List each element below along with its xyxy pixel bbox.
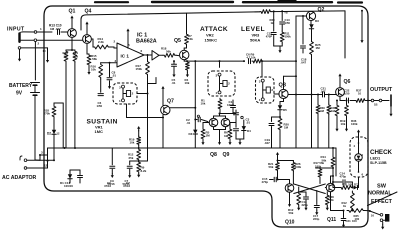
- resistor R17 column: [147, 55, 149, 60]
- capacitor C6 series: [248, 59, 250, 64]
- svg-text:Q6: Q6: [344, 79, 351, 85]
- svg-text:6: 6: [362, 173, 364, 177]
- svg-text:Q10: Q10: [285, 220, 295, 226]
- svg-text:1M: 1M: [284, 126, 289, 130]
- svg-text:56k: 56k: [166, 50, 171, 54]
- ground stub inside outline: [47, 48, 49, 58]
- svg-text:Q4: Q4: [85, 9, 92, 15]
- svg-text:47/16: 47/16: [104, 184, 111, 188]
- diode D3b on tap column: [194, 119, 196, 121]
- scan artifact top edge marks: [95, 1, 128, 3]
- svg-text:BA662A: BA662A: [136, 39, 157, 45]
- svg-text:1/50: 1/50: [344, 92, 350, 96]
- svg-text:3: 3: [216, 73, 218, 77]
- svg-text:47/16: 47/16: [123, 184, 130, 188]
- svg-text:470P: 470P: [266, 35, 272, 39]
- resistor R9 series: [252, 59, 263, 63]
- capacitor C18b: [304, 196, 309, 198]
- svg-text:6: 6: [141, 49, 143, 53]
- svg-text:Q11: Q11: [327, 217, 336, 223]
- input jack: [18, 33, 20, 41]
- svg-text:1: 1: [216, 91, 218, 95]
- svg-text:1k: 1k: [343, 204, 347, 208]
- svg-text:Q3: Q3: [279, 82, 286, 88]
- Q4 emitter resistor R16: [86, 43, 88, 54]
- Q11 collector to R14: [330, 176, 332, 183]
- battery wire: [34, 42, 36, 81]
- svg-text:ATTACK: ATTACK: [200, 26, 228, 33]
- svg-text:150k: 150k: [136, 67, 143, 71]
- svg-text:Q5: Q5: [174, 38, 181, 44]
- resistor R25: [310, 40, 314, 56]
- resistor R19 column with supply arrow: [138, 128, 140, 132]
- resistors R29 R30: [316, 104, 320, 115]
- svg-text:10: 10: [43, 49, 47, 53]
- resistor R35: [347, 209, 365, 213]
- resistor R5: [203, 122, 209, 124]
- svg-text:220p: 220p: [313, 217, 320, 221]
- svg-text:270k: 270k: [44, 112, 51, 116]
- resistor R18b column: [52, 105, 56, 118]
- capacitor C1 under VR2: [232, 100, 234, 104]
- svg-text:Q9: Q9: [223, 152, 230, 158]
- svg-text:10: 10: [358, 92, 362, 96]
- capacitor C20 series: [322, 92, 324, 97]
- svg-text:1: 1: [119, 99, 121, 103]
- svg-text:D2: D2: [47, 132, 51, 136]
- node under R12: [138, 160, 140, 162]
- svg-text:1/50: 1/50: [97, 104, 103, 108]
- resistor R4: [186, 61, 190, 71]
- svg-text:220p: 220p: [302, 203, 309, 207]
- CHECK LED dashed box: [350, 137, 368, 177]
- svg-text:16: 16: [371, 213, 375, 217]
- svg-text:10k: 10k: [130, 141, 135, 145]
- capacitor C9 polarized: [111, 148, 113, 165]
- svg-text:470p: 470p: [262, 180, 269, 184]
- output jack: [368, 100, 371, 102]
- resistor R6: [230, 122, 236, 124]
- wire input to Q1: [48, 31, 52, 33]
- capacitor C3: [233, 113, 236, 115]
- svg-text:50KA: 50KA: [250, 38, 260, 43]
- wire Q3 emitter to Q6 base: [295, 94, 297, 96]
- svg-text:10k: 10k: [185, 81, 190, 85]
- svg-text:10/25: 10/25: [227, 103, 235, 107]
- Q11 emitter to bottom wire: [330, 192, 332, 211]
- svg-text:1M: 1M: [224, 134, 229, 138]
- svg-text:AC ADAPTOR: AC ADAPTOR: [2, 175, 37, 181]
- svg-text:Q7: Q7: [167, 99, 174, 105]
- VR2 top wire: [219, 61, 221, 67]
- IC1 power pin wire: [127, 34, 129, 48]
- resistor R28: [325, 194, 329, 206]
- svg-text:1M: 1M: [316, 46, 321, 50]
- svg-text:OUTPUT: OUTPUT: [370, 87, 393, 93]
- svg-text:D3: D3: [189, 132, 193, 136]
- svg-text:56k: 56k: [321, 158, 326, 162]
- svg-text:3: 3: [119, 85, 121, 89]
- svg-text:1M: 1M: [64, 54, 69, 58]
- capacitor C22: [346, 98, 348, 103]
- battery to power entry wire: [34, 95, 36, 160]
- capacitor C18: [302, 16, 304, 44]
- Q7 collector wire: [170, 107, 196, 109]
- svg-text:2: 2: [271, 88, 273, 92]
- AC adaptor jack: [20, 156, 22, 160]
- Q5 collector resistor R7: [183, 48, 185, 50]
- svg-text:2: 2: [38, 41, 40, 45]
- capacitor C2: [197, 115, 199, 117]
- resistor R10: [66, 49, 72, 51]
- resistor R26: [292, 162, 296, 172]
- diode D5: [283, 99, 285, 102]
- signal line from Q5 emitter: [183, 60, 185, 61]
- svg-text:1/50: 1/50: [285, 21, 291, 25]
- buffer triangle: [144, 54, 152, 56]
- capacitor C5: [173, 61, 175, 64]
- capacitor C21: [341, 218, 346, 220]
- svg-text:LED1: LED1: [370, 156, 381, 161]
- svg-text:100: 100: [355, 217, 360, 221]
- resistor R30 capacitor C13 columns: [273, 10, 275, 12]
- stub near R17: [148, 83, 157, 85]
- svg-text:1M: 1M: [206, 134, 211, 138]
- svg-text:SLP-115B: SLP-115B: [370, 161, 387, 165]
- svg-text:10k: 10k: [188, 37, 193, 41]
- svg-text:4: 4: [354, 144, 356, 148]
- series resistor R30 in rail: [260, 10, 272, 14]
- resistor R1 under VR2: [218, 98, 222, 110]
- resistor R14: [91, 38, 93, 40]
- svg-text:2.2k: 2.2k: [98, 40, 104, 44]
- svg-text:1: 1: [259, 98, 261, 102]
- Q6 emitter node: [339, 96, 341, 100]
- supply rail inner line: [81, 12, 260, 30]
- resistor R9b: [137, 161, 141, 173]
- svg-text:10k: 10k: [91, 68, 96, 72]
- svg-text:3: 3: [115, 59, 117, 63]
- svg-text:.047: .047: [264, 141, 270, 145]
- svg-text:100k: 100k: [285, 35, 292, 39]
- resistor R12d column: [351, 191, 355, 211]
- wire x362 from rail: [361, 11, 363, 38]
- R17 column crossing bus: [147, 148, 149, 161]
- resistor R12 56k mid: [297, 192, 301, 206]
- svg-text:2: 2: [114, 40, 116, 44]
- svg-text:56k: 56k: [92, 57, 97, 61]
- svg-text:BATTERY: BATTERY: [9, 83, 33, 89]
- svg-text:10k: 10k: [73, 54, 78, 58]
- Q8 Q9 emitters to ground: [213, 127, 215, 130]
- wire top of left column: [54, 102, 63, 104]
- svg-text:C21: C21: [346, 219, 352, 223]
- svg-text:56k: 56k: [329, 198, 334, 202]
- svg-text:100/16: 100/16: [64, 184, 73, 188]
- capacitor C19: [271, 117, 273, 122]
- svg-text:SW: SW: [377, 184, 387, 190]
- svg-text:10k: 10k: [201, 102, 206, 106]
- Q3 collector wire: [283, 76, 285, 89]
- svg-text:Q8: Q8: [210, 152, 217, 158]
- svg-text:IC 1: IC 1: [121, 54, 130, 59]
- switch ground: [382, 222, 384, 225]
- svg-text:3: 3: [41, 151, 43, 155]
- svg-text:+B: +B: [284, 11, 288, 15]
- svg-text:1: 1: [40, 27, 42, 31]
- svg-text:12: 12: [57, 132, 60, 136]
- svg-text:56k: 56k: [289, 211, 294, 215]
- svg-text:.01: .01: [172, 81, 176, 85]
- diode D3: [310, 21, 312, 24]
- svg-text:Q2: Q2: [318, 7, 325, 13]
- Q7 emitter down to bus: [162, 114, 164, 148]
- input jack ground: [19, 49, 21, 56]
- resistor R14b 56k column: [331, 156, 335, 168]
- wire Q1 collector down: [71, 37, 73, 50]
- svg-text:2: 2: [228, 82, 230, 86]
- diode D4: [243, 120, 245, 126]
- resistor R34: [345, 104, 349, 117]
- ground bus line: [48, 147, 337, 149]
- wire ring contact to Q4 base: [44, 39, 83, 41]
- svg-text:.01: .01: [186, 121, 190, 125]
- svg-text:150KC: 150KC: [205, 38, 218, 43]
- ground of supply filter: [274, 45, 283, 47]
- capacitor C8: [109, 62, 111, 64]
- capacitor C3b lower: [234, 128, 239, 130]
- svg-text:56k: 56k: [269, 165, 274, 169]
- capacitor C6b below sustain wiper: [98, 93, 103, 95]
- svg-text:.047: .047: [301, 61, 307, 65]
- signal tap vertical x195: [194, 60, 196, 62]
- svg-text:100k: 100k: [295, 165, 302, 169]
- svg-text:D3: D3: [315, 19, 319, 23]
- svg-text:.01: .01: [112, 74, 116, 78]
- svg-text:100k: 100k: [351, 122, 358, 126]
- cross coupling wires: [294, 184, 326, 194]
- output jack ground: [390, 106, 392, 112]
- svg-text:1M .047: 1M .047: [50, 27, 61, 31]
- switch wire pad: [370, 211, 380, 215]
- svg-text:4.7 10k: 4.7 10k: [247, 55, 256, 59]
- svg-text:D4: D4: [247, 129, 251, 133]
- level pot VR3 dashed box: [256, 77, 275, 103]
- resistor R12 below bus: [137, 148, 141, 161]
- Q10 emitter ground: [289, 192, 291, 202]
- svg-text:470p: 470p: [340, 175, 347, 179]
- svg-text:2: 2: [132, 92, 134, 96]
- resistor R33 under output node: [335, 104, 339, 117]
- SUSTAIN pot VR1 dashed box: [113, 83, 137, 104]
- VR1 wire over to Q7 column: [126, 104, 128, 118]
- LED1: [358, 131, 360, 135]
- supply arrow flip-flop: [277, 154, 279, 158]
- resistor R15 column: [101, 62, 117, 64]
- svg-text:3: 3: [259, 79, 261, 83]
- svg-text:.047: .047: [320, 90, 326, 94]
- svg-text:1MC: 1MC: [95, 129, 104, 134]
- svg-text:D5: D5: [283, 108, 287, 112]
- svg-text:10k: 10k: [341, 122, 346, 126]
- svg-text:.01: .01: [246, 121, 250, 125]
- battery symbol: [31, 82, 40, 84]
- resistor R21b: [276, 162, 280, 172]
- power entry node wires: [47, 155, 49, 168]
- resistor R11: [73, 50, 77, 63]
- svg-text:4: 4: [362, 153, 364, 157]
- capacitor C10 with R13: [57, 30, 59, 35]
- attack pot VR2 dashed box: [208, 71, 235, 96]
- svg-text:9V: 9V: [16, 91, 23, 97]
- svg-text:1M: 1M: [320, 109, 325, 113]
- svg-text:Q1: Q1: [69, 9, 76, 15]
- ground of C3 D4: [236, 138, 244, 140]
- svg-text:25k: 25k: [129, 156, 134, 160]
- board outline: [44, 6, 368, 227]
- diode D2: [52, 130, 56, 134]
- capacitor C7 polarized: [129, 161, 131, 165]
- resistor R20b: [278, 117, 282, 131]
- vertical wire x296: [295, 16, 297, 148]
- switch line: [368, 192, 398, 206]
- capacitor C17: [314, 205, 319, 207]
- svg-text:8.2k: 8.2k: [141, 169, 147, 173]
- resistor R18: [159, 54, 163, 56]
- svg-text:1B: 1B: [374, 103, 378, 107]
- resistor R37: [355, 99, 366, 103]
